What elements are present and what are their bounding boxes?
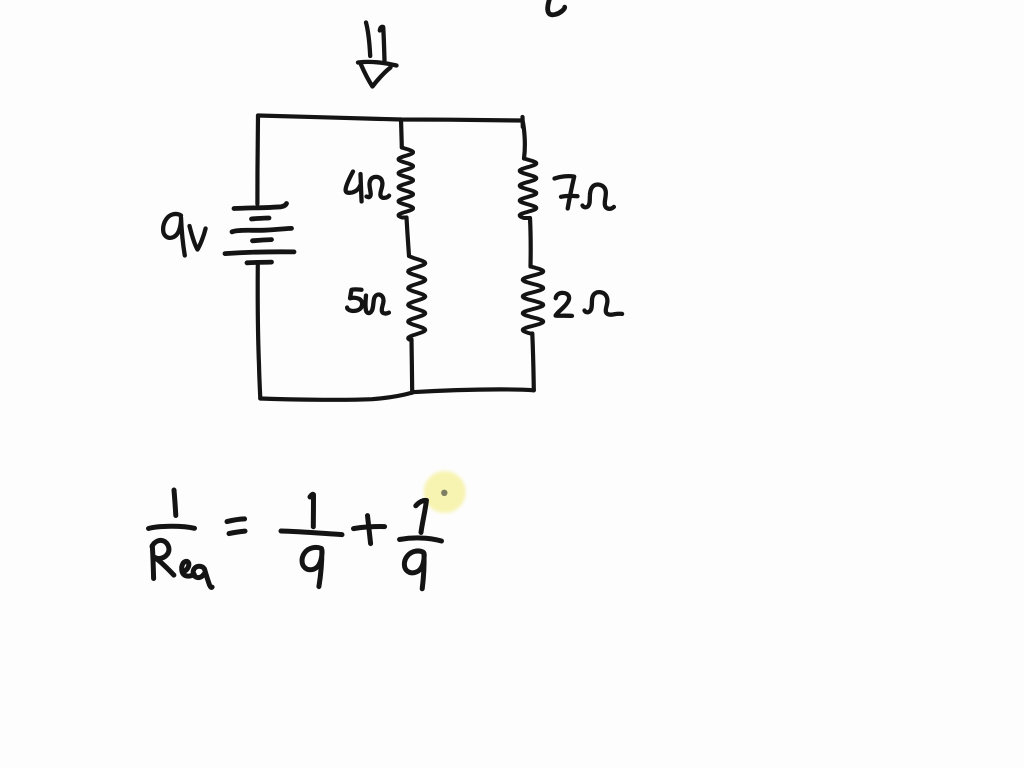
current arrow: head V sides	[361, 64, 391, 87]
battery B1 9V: plate 2 short	[252, 218, 270, 219]
battery B1 9V: plate 5 long	[225, 252, 294, 254]
battery B1 9V: plate 6 short	[247, 260, 272, 265]
label 5ohm	[347, 289, 389, 313]
formula: plus sign	[354, 516, 385, 544]
label 9V: digit 9 and V	[163, 214, 205, 256]
current arrow: head top bar	[358, 62, 397, 66]
wire: left vertical upper (to battery)	[255, 116, 260, 205]
wire: middle branch bottom lead	[409, 340, 414, 393]
formula: fraction 1/Req	[149, 490, 213, 587]
formula: equals sign	[227, 519, 245, 534]
wire: bottom horizontal left part	[260, 393, 412, 400]
battery B1 9V: plate 3 long	[232, 228, 292, 231]
battery B1 9V: plate 4 short	[253, 240, 272, 241]
wire: right branch top lead with junction tick	[523, 117, 525, 159]
label 7ohm	[555, 176, 614, 209]
resistor R2 5ohm zigzag	[408, 256, 425, 340]
wire: right branch inter-resistor lead	[528, 218, 533, 267]
wire: top horizontal	[258, 116, 523, 121]
label 4ohm	[346, 172, 390, 202]
label 2ohm	[556, 292, 623, 316]
resistor R3 7ohm zigzag	[520, 159, 537, 219]
current arrow: left shaft stroke	[366, 23, 370, 57]
formula: fraction 1/9 second	[400, 500, 442, 588]
highlighter cursor dot	[424, 471, 466, 513]
wire: middle branch top lead	[399, 120, 404, 148]
wire: left vertical lower (battery to bottom corner)	[258, 264, 261, 399]
annotation letter c (cut off at top edge)	[548, 0, 565, 15]
wire: middle branch inter-resistor lead	[407, 218, 410, 257]
battery B1 9V: plate 1 long	[234, 204, 287, 209]
current arrow: right shaft stroke	[380, 27, 385, 61]
wire: right branch bottom lead	[532, 334, 534, 391]
formula: fraction 1/9 first	[281, 494, 342, 586]
resistor R1 4ohm zigzag	[399, 148, 414, 218]
resistor R4 2ohm zigzag	[523, 267, 544, 334]
wire: bottom horizontal right part	[412, 389, 534, 392]
